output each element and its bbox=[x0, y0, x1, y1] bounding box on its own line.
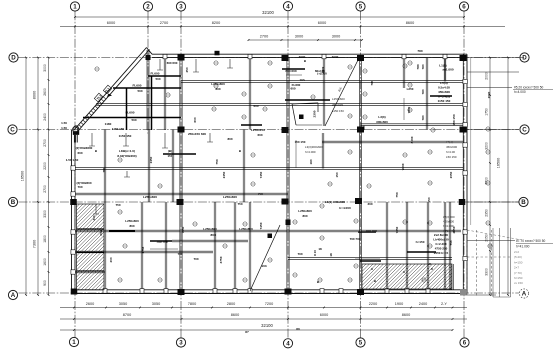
svg-text:300: 300 bbox=[92, 215, 96, 220]
svg-text:h=4.000: h=4.000 bbox=[443, 224, 454, 228]
svg-text:6000: 6000 bbox=[320, 313, 328, 317]
svg-text:8600: 8600 bbox=[231, 313, 239, 317]
svg-text:7200: 7200 bbox=[265, 302, 273, 306]
svg-text:700 700: 700 700 bbox=[350, 237, 361, 241]
svg-text:2050: 2050 bbox=[449, 171, 453, 178]
svg-text:1: 1 bbox=[72, 339, 76, 346]
svg-text:1150 150: 1150 150 bbox=[332, 109, 344, 113]
svg-text:1150 150: 1150 150 bbox=[112, 127, 125, 131]
svg-text:780: 780 bbox=[421, 64, 425, 69]
svg-text:2700: 2700 bbox=[160, 21, 168, 25]
svg-text:h=41.000: h=41.000 bbox=[516, 245, 530, 249]
svg-text:2450: 2450 bbox=[222, 171, 226, 178]
svg-text:780: 780 bbox=[417, 49, 422, 53]
svg-text:103: 103 bbox=[299, 78, 304, 82]
svg-text:1800: 1800 bbox=[43, 235, 47, 243]
svg-text:3: 3 bbox=[179, 4, 183, 11]
svg-text:6000: 6000 bbox=[318, 21, 326, 25]
svg-text:1750: 1750 bbox=[484, 108, 488, 116]
svg-text:300: 300 bbox=[367, 202, 372, 206]
svg-text:C: C bbox=[10, 127, 15, 134]
svg-text:2800: 2800 bbox=[227, 302, 235, 306]
svg-text:7800: 7800 bbox=[407, 106, 411, 113]
svg-text:150: 150 bbox=[335, 172, 339, 177]
svg-text:L50 150: L50 150 bbox=[446, 155, 457, 159]
svg-text:800: 800 bbox=[227, 137, 232, 141]
svg-text:780: 780 bbox=[370, 80, 374, 85]
svg-text:8 10: 8 10 bbox=[313, 250, 317, 256]
svg-text:4: 4 bbox=[286, 3, 290, 10]
svg-text:L250x600: L250x600 bbox=[332, 97, 345, 101]
svg-text:3200: 3200 bbox=[484, 142, 488, 150]
svg-text:h=4.000: h=4.000 bbox=[339, 206, 351, 210]
svg-text:2700: 2700 bbox=[43, 139, 47, 147]
svg-text:#5.20 xxxxx? 500 50: #5.20 xxxxx? 500 50 bbox=[514, 86, 543, 90]
svg-text:103: 103 bbox=[261, 264, 266, 268]
svg-text:L250x600: L250x600 bbox=[211, 82, 225, 86]
svg-text:L250x600: L250x600 bbox=[203, 227, 217, 231]
svg-text:200: 200 bbox=[109, 257, 113, 262]
svg-text:L250x600: L250x600 bbox=[143, 195, 157, 199]
svg-text:A: A bbox=[11, 292, 16, 299]
svg-text:xx1.000: xx1.000 bbox=[442, 68, 453, 72]
svg-text:2600: 2600 bbox=[86, 302, 94, 306]
svg-text:150: 150 bbox=[427, 197, 431, 202]
svg-text:Lh400x150: Lh400x150 bbox=[433, 238, 449, 242]
svg-text:3050: 3050 bbox=[119, 302, 127, 306]
svg-text:150: 150 bbox=[167, 154, 172, 158]
svg-text:1.50: 1.50 bbox=[61, 121, 67, 125]
svg-text:1900: 1900 bbox=[395, 302, 403, 306]
svg-text:h=150: h=150 bbox=[514, 276, 523, 280]
svg-text:450x600: 450x600 bbox=[443, 220, 454, 224]
svg-text:800: 800 bbox=[302, 214, 307, 218]
svg-text:2x2 8x300: 2x2 8x300 bbox=[434, 233, 449, 237]
svg-text:(5.20): (5.20) bbox=[514, 255, 522, 259]
svg-text:600: 600 bbox=[290, 87, 295, 91]
svg-text:3750: 3750 bbox=[219, 256, 223, 263]
svg-text:FL600: FL600 bbox=[151, 72, 160, 76]
svg-text:#7.70 xxxxx? 500 50: #7.70 xxxxx? 500 50 bbox=[516, 239, 545, 243]
svg-text:250: 250 bbox=[185, 67, 189, 72]
svg-text:h=4.000: h=4.000 bbox=[305, 150, 316, 154]
svg-text:2×2: 2×2 bbox=[514, 250, 519, 254]
svg-text:150 150: 150 150 bbox=[295, 140, 306, 144]
svg-text:2200: 2200 bbox=[369, 302, 377, 306]
svg-text:3000: 3000 bbox=[332, 34, 340, 38]
svg-text:FL600: FL600 bbox=[126, 111, 135, 115]
svg-text:2700: 2700 bbox=[260, 34, 268, 38]
svg-text:C: C bbox=[522, 127, 527, 134]
svg-text:780: 780 bbox=[421, 89, 425, 94]
svg-text:2×7: 2×7 bbox=[514, 266, 519, 270]
svg-text:2400: 2400 bbox=[419, 302, 427, 306]
svg-text:7450: 7450 bbox=[395, 226, 399, 233]
svg-text:18: 18 bbox=[329, 253, 333, 257]
svg-text:L250: L250 bbox=[407, 87, 414, 91]
svg-text:2600: 2600 bbox=[43, 88, 47, 96]
svg-text:2450: 2450 bbox=[149, 156, 153, 163]
svg-text:7450: 7450 bbox=[259, 171, 263, 178]
svg-text:h=150: h=150 bbox=[514, 260, 523, 264]
svg-text:750: 750 bbox=[237, 202, 242, 206]
svg-text:2200: 2200 bbox=[43, 162, 47, 170]
svg-text:750: 750 bbox=[395, 192, 399, 197]
svg-text:8200: 8200 bbox=[212, 21, 220, 25]
svg-text:6: 6 bbox=[462, 4, 466, 11]
svg-text:3300: 3300 bbox=[484, 268, 488, 276]
svg-text:600: 600 bbox=[253, 104, 258, 108]
svg-text:L250x600: L250x600 bbox=[125, 219, 139, 223]
svg-text:5: 5 bbox=[359, 340, 363, 347]
svg-text:7450: 7450 bbox=[259, 222, 263, 229]
svg-text:7450: 7450 bbox=[181, 226, 185, 233]
svg-text:450x600: 450x600 bbox=[446, 145, 457, 149]
svg-text:800: 800 bbox=[215, 87, 220, 91]
svg-text:900: 900 bbox=[43, 280, 47, 286]
svg-text:1600: 1600 bbox=[43, 258, 47, 266]
svg-text:0.5x4.05: 0.5x4.05 bbox=[438, 86, 450, 90]
svg-text:3050: 3050 bbox=[152, 302, 160, 306]
svg-text:L5(3): L5(3) bbox=[446, 140, 453, 144]
svg-text:3: 3 bbox=[179, 340, 183, 347]
svg-text:6000: 6000 bbox=[107, 21, 115, 25]
svg-text:h=5.4(1): h=5.4(1) bbox=[438, 95, 450, 99]
svg-text:B: B bbox=[521, 199, 526, 206]
svg-text:3000: 3000 bbox=[332, 55, 339, 59]
svg-text:1: 1 bbox=[73, 4, 77, 11]
svg-text:80: 80 bbox=[296, 327, 300, 331]
svg-text:600: 600 bbox=[257, 133, 262, 137]
svg-text:L5(3): L5(3) bbox=[440, 81, 447, 85]
svg-text:3000: 3000 bbox=[43, 64, 47, 72]
svg-text:780: 780 bbox=[416, 64, 420, 69]
svg-text:D: D bbox=[11, 55, 16, 62]
svg-text:700 700: 700 700 bbox=[156, 240, 167, 244]
svg-text:800: 800 bbox=[210, 233, 215, 237]
svg-text:300x600: 300x600 bbox=[376, 120, 388, 124]
svg-text:200: 200 bbox=[99, 230, 103, 235]
svg-text:L1(1) 300x600: L1(1) 300x600 bbox=[325, 200, 346, 204]
svg-text:4750 250: 4750 250 bbox=[435, 247, 448, 251]
svg-text:h=2.400: h=2.400 bbox=[435, 242, 446, 246]
svg-text:500: 500 bbox=[155, 77, 160, 81]
svg-text:600: 600 bbox=[77, 151, 82, 155]
svg-text:B: B bbox=[11, 199, 16, 206]
svg-text:700 700: 700 700 bbox=[365, 229, 376, 233]
svg-text:1150 150: 1150 150 bbox=[438, 99, 451, 103]
svg-text:700: 700 bbox=[193, 257, 198, 261]
svg-text:32100: 32100 bbox=[261, 323, 273, 328]
svg-text:1.50: 1.50 bbox=[61, 126, 67, 130]
svg-text:3000: 3000 bbox=[295, 34, 303, 38]
svg-text:450x600: 450x600 bbox=[438, 90, 450, 94]
svg-text:7800: 7800 bbox=[188, 302, 196, 306]
svg-text:250x600: 250x600 bbox=[332, 103, 343, 107]
svg-text:2: 2 bbox=[146, 4, 150, 11]
svg-text:750: 750 bbox=[215, 159, 219, 164]
svg-text:LKB(n=1.0): LKB(n=1.0) bbox=[119, 149, 135, 153]
svg-text:A: A bbox=[522, 291, 527, 298]
svg-text:(7.70): (7.70) bbox=[514, 271, 522, 275]
svg-text:(2)YKB3600: (2)YKB3600 bbox=[76, 146, 93, 150]
svg-text:2000: 2000 bbox=[410, 136, 414, 143]
svg-text:750: 750 bbox=[449, 240, 453, 245]
svg-text:1150 150: 1150 150 bbox=[443, 229, 455, 233]
svg-text:8000: 8000 bbox=[32, 91, 36, 99]
svg-text:L250x150: L250x150 bbox=[251, 128, 265, 132]
svg-text:750: 750 bbox=[257, 192, 262, 196]
svg-text:2000: 2000 bbox=[484, 72, 488, 80]
svg-text:190: 190 bbox=[309, 159, 313, 164]
svg-text:700: 700 bbox=[77, 185, 82, 189]
svg-text:2700: 2700 bbox=[43, 185, 47, 193]
svg-text:8700: 8700 bbox=[123, 313, 131, 317]
svg-text:3300: 3300 bbox=[43, 210, 47, 218]
svg-text:250x150 600: 250x150 600 bbox=[188, 132, 206, 136]
svg-text:780: 780 bbox=[362, 125, 366, 130]
svg-text:2-Y: 2-Y bbox=[441, 302, 447, 306]
svg-text:1.50 1.50: 1.50 1.50 bbox=[66, 158, 79, 162]
svg-text:FL600: FL600 bbox=[133, 84, 142, 88]
svg-text:L250x600: L250x600 bbox=[223, 195, 237, 199]
svg-text:h=4.00: h=4.00 bbox=[446, 150, 455, 154]
svg-text:5: 5 bbox=[359, 4, 363, 11]
svg-text:18: 18 bbox=[318, 247, 322, 251]
svg-text:8?: 8? bbox=[245, 330, 249, 334]
svg-text:L250x600: L250x600 bbox=[298, 209, 312, 213]
svg-text:8600: 8600 bbox=[406, 21, 414, 25]
svg-text:4: 4 bbox=[286, 341, 290, 348]
svg-text:800: 800 bbox=[129, 224, 134, 228]
svg-text:h=4.000: h=4.000 bbox=[514, 90, 526, 94]
svg-text:7800: 7800 bbox=[401, 163, 405, 170]
svg-text:700: 700 bbox=[177, 252, 182, 256]
svg-text:1150 150: 1150 150 bbox=[119, 134, 132, 138]
svg-text:D: D bbox=[522, 55, 527, 62]
svg-text:2350: 2350 bbox=[484, 209, 488, 217]
svg-text:8600: 8600 bbox=[402, 313, 410, 317]
svg-text:2000: 2000 bbox=[487, 91, 491, 98]
svg-text:6: 6 bbox=[463, 340, 467, 347]
svg-text:2400: 2400 bbox=[43, 113, 47, 121]
svg-text:L3(3)300x600: L3(3)300x600 bbox=[305, 145, 323, 149]
svg-text:780: 780 bbox=[421, 115, 425, 120]
svg-text:500: 500 bbox=[131, 118, 136, 122]
svg-text:(B): (B) bbox=[168, 149, 172, 153]
svg-text:16500: 16500 bbox=[497, 158, 501, 169]
svg-text:600 600: 600 600 bbox=[285, 69, 296, 73]
svg-text:32100: 32100 bbox=[262, 10, 274, 15]
svg-text:750: 750 bbox=[102, 167, 106, 172]
svg-text:600: 600 bbox=[193, 117, 197, 122]
svg-text:150 150: 150 150 bbox=[452, 114, 456, 125]
svg-text:L3(3): L3(3) bbox=[378, 115, 385, 119]
svg-text:500: 500 bbox=[137, 89, 142, 93]
svg-text:700: 700 bbox=[297, 252, 302, 256]
svg-text:xx 150: xx 150 bbox=[514, 281, 523, 285]
svg-text:2300: 2300 bbox=[313, 110, 317, 117]
svg-text:16500: 16500 bbox=[20, 171, 24, 182]
svg-text:L5(3)300: L5(3)300 bbox=[443, 215, 455, 219]
svg-text:2050 h=15: 2050 h=15 bbox=[434, 251, 449, 255]
svg-text:3750: 3750 bbox=[141, 246, 145, 253]
svg-text:1180: 1180 bbox=[105, 122, 112, 126]
svg-text:L250x600: L250x600 bbox=[239, 227, 253, 231]
svg-text:7300: 7300 bbox=[32, 240, 36, 248]
svg-text:2300: 2300 bbox=[321, 66, 325, 73]
svg-text:750: 750 bbox=[115, 203, 120, 207]
svg-text:600 600: 600 600 bbox=[167, 61, 178, 65]
svg-text:h=150: h=150 bbox=[416, 240, 425, 244]
svg-text:8.32(YKB200): 8.32(YKB200) bbox=[117, 154, 136, 158]
